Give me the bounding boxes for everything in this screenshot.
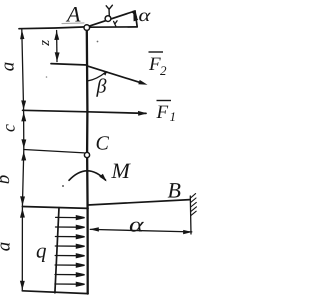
svg-text:a: a [0,242,15,252]
rod B horizontal to wall [88,200,190,205]
moment M arc [69,171,106,180]
arrowhead force F2 [138,80,147,85]
svg-text:B: B [168,178,181,203]
svg-text:2: 2 [160,63,167,78]
distributed load q arrows [55,216,85,286]
wire horizontal line hinge A to alpha corner [90,26,138,28]
arrowhead dimension a right left end [90,227,99,231]
svg-text:β: β [96,76,107,98]
mark above link hinge [106,5,112,15]
distributed load box top line [22,207,88,209]
svg-text:q: q [36,239,47,263]
angle alpha wedge arrow [133,12,138,22]
hinge on inclined link [105,16,111,22]
dimension a (right) line [90,229,192,232]
arrowhead dimension top up [20,30,24,40]
arrowhead z bottom [55,52,60,61]
arrowhead moment M [99,174,106,182]
svg-text:z: z [37,40,53,47]
svg-text:A: A [65,2,81,27]
arrowhead dimension b down [20,196,25,205]
svg-text:a: a [0,62,19,72]
svg-text:b: b [0,175,14,185]
svg-text:α: α [139,5,152,25]
mark below link hinge [114,21,118,27]
svg-text:M: M [111,158,132,183]
rod inclined link from A [89,11,135,26]
beam vertical member A to bottom [86,30,89,293]
svg-text:F: F [156,102,169,123]
wire left dimension line vertical [22,30,24,291]
node C circle [84,152,89,157]
arrowhead dimension a1 down [21,100,26,109]
distributed load box bottom line [22,291,88,294]
svg-text:C: C [96,133,110,155]
arrowhead force F1 [138,111,147,116]
arrowhead dimension c up [21,112,26,121]
arrowhead dimension a2 up [20,208,25,217]
node z level line [51,64,87,65]
svg-text:α: α [129,213,145,237]
speck 3 [46,76,48,78]
arrowhead dimension a right right end [183,230,192,234]
z dimension vertical [56,31,58,62]
arrowhead beta arc [103,71,107,76]
wall hatch strokes [190,194,196,216]
arrowhead dimension c down [21,139,26,148]
arrowhead z top [54,31,59,40]
angle beta arc [88,72,106,81]
wire C level line [24,150,85,153]
distributed load box left edge [55,208,59,293]
wall line at B [189,196,192,234]
wire top horizontal line from dimension line to hinge A [19,27,86,29]
wire vertical end of inclined link [135,11,137,27]
arrowhead dimension b up [21,151,26,160]
wire faint double stroke under label A [62,22,84,25]
speck 2 [62,185,64,187]
arrowhead dimension a2 down [20,281,25,290]
hinge A circle [84,25,90,31]
svg-text:c: c [0,124,19,132]
force F1 line [23,110,146,113]
speck 1 [97,41,99,43]
force F2 line [88,66,140,82]
svg-text:1: 1 [170,109,177,124]
